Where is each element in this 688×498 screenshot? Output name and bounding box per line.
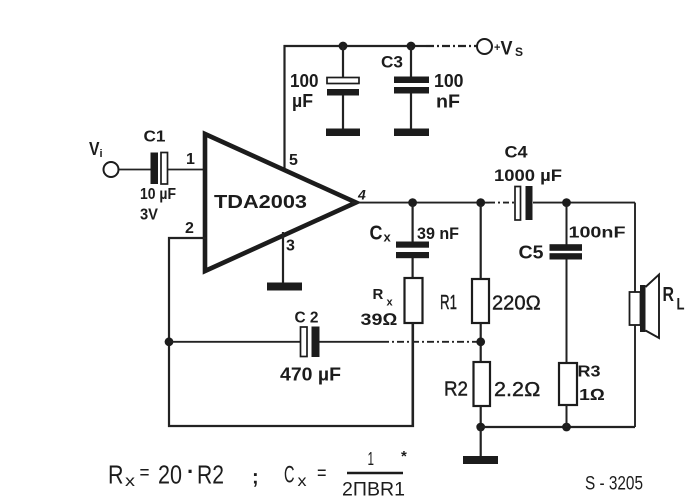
node ground rail / R3 [562, 423, 571, 432]
node ground rail / R2 [476, 423, 485, 432]
terminal +Vs [477, 39, 523, 60]
svg-text:39 nF: 39 nF [417, 224, 459, 243]
wire C2 branch [169, 341, 477, 343]
svg-text:39Ω: 39Ω [361, 310, 398, 329]
svg-text:S - 3205: S - 3205 [585, 474, 643, 495]
svg-text:x: x [298, 473, 307, 490]
svg-text:2.2Ω: 2.2Ω [494, 379, 541, 401]
node output / R1 [476, 198, 485, 207]
node output / Cx [408, 198, 417, 207]
svg-text:470 µF: 470 µF [280, 365, 341, 385]
svg-text:µF: µF [292, 91, 313, 111]
svg-text:R: R [663, 284, 675, 306]
capacitor C1 10uF 3V [140, 129, 176, 224]
svg-text:100: 100 [434, 71, 464, 91]
svg-text:TDA2003: TDA2003 [214, 191, 307, 212]
terminal Vi input [89, 139, 119, 177]
svg-text:C: C [284, 462, 295, 489]
svg-text:3V: 3V [140, 207, 158, 224]
ground below C3 [394, 129, 429, 137]
svg-text:C4: C4 [505, 143, 529, 162]
svg-text:R2: R2 [444, 379, 468, 401]
svg-text:R: R [373, 286, 384, 303]
svg-text:R2: R2 [197, 460, 224, 490]
op-amp U1 TDA2003 [205, 134, 356, 271]
capacitor Cx 39nF [370, 205, 460, 278]
capacitor C2 470uF [280, 310, 341, 385]
wire pin 2 feedback loop [169, 238, 413, 426]
capacitor C5 100nF [519, 205, 626, 363]
resistor R2 2.2ohm [444, 362, 541, 406]
node supply junction B [407, 42, 416, 51]
svg-text:220Ω: 220Ω [492, 293, 541, 315]
svg-text:x: x [387, 297, 394, 309]
node R1 R2 junction [476, 323, 485, 362]
svg-text:4: 4 [357, 187, 366, 203]
capacitor 100uF (supply electrolytic) [290, 46, 359, 129]
ground below R2 [463, 427, 498, 464]
ground below 100uF [326, 129, 360, 137]
wire output pin 4 [352, 202, 635, 204]
svg-text:1: 1 [368, 449, 375, 469]
wire R3 to ground rail [566, 405, 568, 427]
wire speaker to ground rail [634, 325, 636, 427]
svg-text:10 µF: 10 µF [140, 186, 176, 203]
svg-text:x: x [384, 230, 392, 245]
svg-text:R: R [108, 460, 124, 490]
wire top supply rail [284, 45, 478, 47]
svg-text:C1: C1 [144, 129, 166, 146]
svg-text:i: i [100, 148, 103, 160]
svg-text:R3: R3 [578, 364, 601, 381]
pin 1 label [186, 151, 195, 168]
pin 4 label [357, 187, 366, 203]
node supply junction A [339, 42, 348, 51]
ground below pin 3 [267, 283, 302, 291]
resistor Rx 39ohm [361, 278, 423, 329]
wire pin 5 to rail [283, 45, 285, 170]
svg-text:R1: R1 [440, 292, 457, 314]
svg-text:;: ; [252, 467, 259, 489]
svg-text:5: 5 [289, 152, 298, 169]
svg-text:C 2: C 2 [295, 310, 319, 327]
formula Cx = 1/(2piBR1) [284, 448, 407, 498]
svg-text:*: * [401, 448, 407, 465]
resistor R3 1ohm [559, 363, 605, 405]
svg-text:C5: C5 [519, 243, 544, 263]
svg-text:1000 µF: 1000 µF [494, 166, 562, 185]
svg-text:100: 100 [290, 71, 319, 91]
svg-text:nF: nF [436, 92, 460, 112]
svg-text:3: 3 [286, 238, 295, 255]
svg-text:100nF: 100nF [569, 225, 626, 242]
svg-text:=: = [140, 462, 150, 484]
wire Rx lower stub [412, 323, 414, 426]
wire C1 to pin 1 [168, 169, 207, 171]
svg-text:20: 20 [158, 460, 182, 490]
wire bottom ground rail [481, 426, 635, 428]
svg-text:+: + [494, 42, 500, 54]
formula Rx = 20 R2 [108, 459, 259, 490]
pin 2 label [185, 220, 194, 237]
svg-text:C: C [370, 223, 383, 245]
svg-text:S: S [515, 45, 523, 59]
svg-text:x: x [125, 473, 135, 490]
wire pin 3 to ground [282, 232, 284, 283]
svg-text:2: 2 [185, 220, 194, 237]
svg-text:2ΠBR1: 2ΠBR1 [342, 479, 405, 498]
node pin2 / C2 junction [165, 337, 174, 346]
capacitor C3 100nF [381, 46, 464, 129]
capacitor C4 1000uF [494, 143, 562, 221]
svg-text:V: V [89, 139, 100, 159]
svg-text:V: V [501, 39, 513, 60]
resistor R1 220ohm [440, 205, 541, 323]
svg-text:1Ω: 1Ω [579, 387, 605, 404]
speaker RL [630, 275, 685, 339]
wire right branch to speaker [634, 203, 636, 292]
figure number S-3205 [585, 474, 643, 495]
svg-text:C3: C3 [381, 53, 403, 72]
pin 3 label [286, 238, 295, 255]
wire R2 to ground rail [480, 406, 482, 427]
svg-text:1: 1 [186, 151, 195, 168]
svg-text:=: = [317, 463, 327, 485]
svg-text:L: L [677, 295, 685, 314]
node after C4 / C5 [562, 198, 571, 207]
pin 5 label [289, 152, 298, 169]
svg-text:·: · [187, 459, 194, 484]
wire Vi to C1 [119, 169, 152, 171]
